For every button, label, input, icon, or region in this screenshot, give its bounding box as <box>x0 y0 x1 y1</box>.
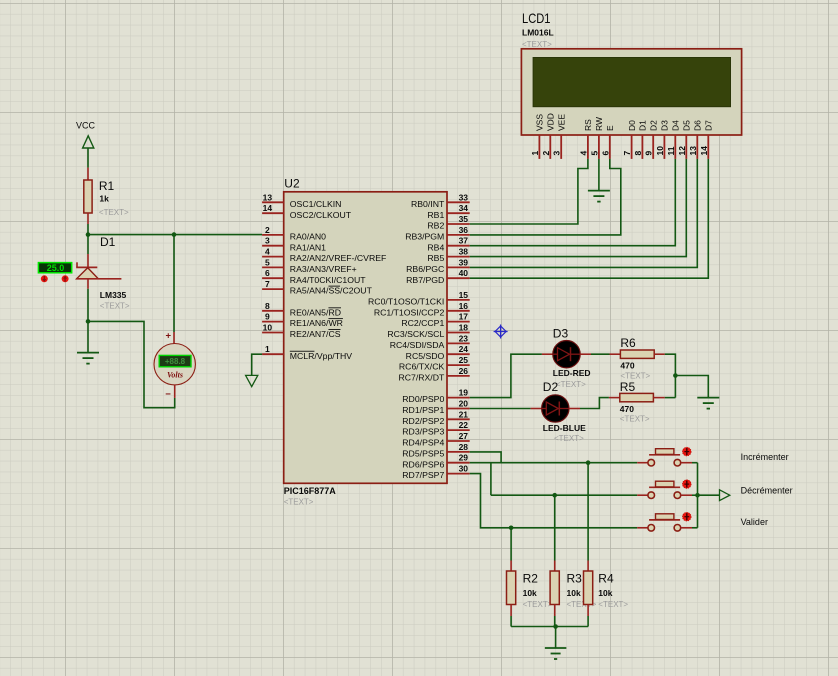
voltmeter plus sign <box>166 331 172 342</box>
svg-text:11: 11 <box>666 146 676 155</box>
text placeholder R1 <box>99 208 129 217</box>
svg-text:D2: D2 <box>648 120 658 131</box>
U2 pin 4 RA2 (left) <box>262 247 386 264</box>
svg-text:36: 36 <box>459 225 469 235</box>
svg-text:<TEXT>: <TEXT> <box>523 600 553 609</box>
svg-text:RS: RS <box>583 119 593 131</box>
svg-text:RB5: RB5 <box>427 253 444 263</box>
svg-text:R2: R2 <box>523 572 539 586</box>
U2 pin 2 RA0 (left) <box>262 225 326 242</box>
svg-text:3: 3 <box>552 151 562 156</box>
microcontroller U2 body <box>284 192 447 484</box>
svg-text:U2: U2 <box>284 176 300 190</box>
svg-text:10k: 10k <box>567 588 581 598</box>
svg-text:D3: D3 <box>660 120 670 131</box>
svg-text:E: E <box>605 125 615 131</box>
U2 pin 13 OSC1 (left) <box>262 192 341 209</box>
U2 pin 20 RD1 (right) <box>402 399 469 416</box>
svg-text:18: 18 <box>459 323 469 333</box>
svg-text:10k: 10k <box>598 588 612 598</box>
svg-text:RB7/PGD: RB7/PGD <box>406 275 444 285</box>
U2 pin 7 RA5 (left) <box>262 279 372 296</box>
resistor R6 <box>610 350 665 358</box>
wire MCLR to terminal <box>252 354 262 375</box>
U2 pin 24 RC5 (right) <box>406 344 470 361</box>
text placeholder R3 <box>567 600 597 609</box>
svg-text:30: 30 <box>459 464 469 474</box>
svg-text:VSS: VSS <box>535 114 545 131</box>
U2 pin 22 RD3 (right) <box>402 420 469 437</box>
svg-text:27: 27 <box>459 431 469 441</box>
LCD1 pin 2 VDD <box>541 113 556 159</box>
svg-text:R5: R5 <box>620 380 636 394</box>
button 1 (Incrementer) <box>637 447 692 466</box>
U2 pin 37 RB4 (right) <box>427 236 469 253</box>
label D3 <box>553 327 569 341</box>
wire drop to button row 2 <box>490 463 492 496</box>
U2 pin 38 RB5 (right) <box>427 247 469 264</box>
svg-text:PIC16F877A: PIC16F877A <box>284 486 337 496</box>
svg-text:RC3/SCK/SCL: RC3/SCK/SCL <box>387 329 444 339</box>
svg-text:9: 9 <box>265 312 270 322</box>
text placeholder D1 <box>100 302 130 311</box>
svg-text:10: 10 <box>655 146 665 156</box>
LCD1 pin 1 VSS <box>530 114 545 159</box>
svg-text:RD5/PSP5: RD5/PSP5 <box>402 449 444 459</box>
node C junction <box>86 319 91 324</box>
value 470 (R6) <box>620 361 634 371</box>
wire RD7 to button row 3 <box>470 474 638 528</box>
button 3 (Valider) <box>637 512 692 531</box>
LCD1 pin 4 RS <box>578 119 593 159</box>
svg-text:LM335: LM335 <box>100 290 127 300</box>
svg-text:17: 17 <box>459 312 469 322</box>
svg-text:7: 7 <box>265 279 270 289</box>
svg-text:LM016L: LM016L <box>522 28 554 38</box>
U2 pin 15 RC0 (right) <box>368 290 470 307</box>
svg-text:RA2/AN2/VREF-/CVREF: RA2/AN2/VREF-/CVREF <box>290 253 387 263</box>
text placeholder R5 <box>620 415 650 424</box>
svg-text:RB1: RB1 <box>427 210 444 220</box>
svg-text:5: 5 <box>265 257 270 267</box>
svg-text:39: 39 <box>459 257 469 267</box>
U2 pin 3 RA1 (left) <box>262 236 326 253</box>
svg-text:4: 4 <box>265 247 270 257</box>
wire to output terminal <box>698 494 720 496</box>
U2 pin 28 RD5 (right) <box>402 442 469 459</box>
wire R6 to node D <box>665 354 676 397</box>
svg-text:RA0/AN0: RA0/AN0 <box>290 232 326 242</box>
label Incrementer <box>741 452 789 462</box>
U2 pin 25 RC6 (right) <box>399 355 470 372</box>
svg-text:24: 24 <box>459 344 469 354</box>
svg-text:RB6/PGC: RB6/PGC <box>406 264 444 274</box>
U2 pin 23 RC4 (right) <box>390 333 470 350</box>
LCD1 pin 3 VEE <box>552 114 567 159</box>
svg-text:RD2/PSP2: RD2/PSP2 <box>402 416 444 426</box>
label R2 <box>523 572 539 586</box>
svg-text:<TEXT>: <TEXT> <box>99 208 129 217</box>
svg-text:RD0/PSP0: RD0/PSP0 <box>402 394 444 404</box>
wire RD6 row to button 1 <box>470 462 638 464</box>
svg-text:<TEXT>: <TEXT> <box>554 434 584 443</box>
actuator terminal up <box>62 275 69 282</box>
wire RD0 to D3 <box>470 354 542 397</box>
svg-text:28: 28 <box>459 442 469 452</box>
svg-text:Valider: Valider <box>741 517 768 527</box>
text placeholder R2 <box>523 600 553 609</box>
svg-text:13: 13 <box>263 192 273 202</box>
svg-text:OSC2/CLKOUT: OSC2/CLKOUT <box>290 210 352 220</box>
svg-text:RC5/SDO: RC5/SDO <box>406 351 445 361</box>
value 10k (R2) <box>523 588 537 598</box>
node D junction <box>673 373 678 378</box>
label R3 <box>567 572 583 586</box>
svg-text:RB4: RB4 <box>427 242 444 252</box>
U2 pin 27 RD4 (right) <box>402 431 469 448</box>
svg-text:<TEXT>: <TEXT> <box>522 40 552 49</box>
svg-text:R6: R6 <box>620 336 636 350</box>
svg-text:8: 8 <box>265 301 270 311</box>
svg-text:RE2/AN7/CS: RE2/AN7/CS <box>290 329 341 339</box>
label R5 <box>620 380 636 394</box>
wire RW to ground <box>598 159 600 191</box>
wire D4 to RB4 <box>470 159 676 246</box>
wire R1 to node A <box>87 224 89 235</box>
ground at LCD RW <box>588 191 610 202</box>
svg-text:<TEXT>: <TEXT> <box>100 302 130 311</box>
svg-text:1: 1 <box>530 151 540 156</box>
U2 pin 36 RB3 (right) <box>405 225 470 242</box>
power terminal VCC symbol <box>83 136 94 148</box>
U2 pin 6 RA4 (left) <box>262 268 366 285</box>
node F junction (R3 pullup) <box>552 493 557 498</box>
label U2 <box>284 176 300 190</box>
LCD1 pin 7 D0 <box>622 120 637 159</box>
svg-text:RE1/AN6/WR: RE1/AN6/WR <box>290 318 343 328</box>
LCD1 pin 12 D5 <box>677 120 692 159</box>
resistor R5 <box>609 393 665 401</box>
svg-text:<TEXT>: <TEXT> <box>556 380 586 389</box>
U2 pin 14 OSC2 (left) <box>262 203 352 220</box>
label Decrementer <box>741 486 793 496</box>
svg-text:MCLR/Vpp/THV: MCLR/Vpp/THV <box>290 351 352 361</box>
svg-text:Décrémenter: Décrémenter <box>741 486 793 496</box>
label R6 <box>620 336 636 350</box>
value LM016L <box>522 28 554 38</box>
led D2 <box>542 395 569 422</box>
text placeholder D2 <box>554 434 584 443</box>
node I junction <box>553 624 558 629</box>
svg-text:29: 29 <box>459 453 469 463</box>
text placeholder R6 <box>620 372 650 381</box>
svg-text:470: 470 <box>620 404 634 414</box>
wire+resistor R2 chain <box>507 528 516 627</box>
svg-text:33: 33 <box>459 192 469 202</box>
svg-text:23: 23 <box>459 333 469 343</box>
U2 pin 35 RB2 (right) <box>427 214 469 231</box>
voltmeter label Volts <box>167 370 183 379</box>
value LM335 <box>100 290 127 300</box>
LCD1 pin 11 D4 <box>666 120 681 159</box>
svg-text:9: 9 <box>644 151 654 156</box>
svg-text:OSC1/CLKIN: OSC1/CLKIN <box>290 199 342 209</box>
value LED-BLUE <box>543 423 586 433</box>
svg-text:LED-RED: LED-RED <box>553 368 591 378</box>
svg-text:VCC: VCC <box>76 121 96 131</box>
node G junction (R2 pullup) <box>509 526 514 531</box>
U2 pin 26 RC7 (right) <box>398 366 469 383</box>
svg-text:<TEXT>: <TEXT> <box>284 498 314 507</box>
label R1 <box>99 179 115 193</box>
text placeholder U2 <box>284 498 314 507</box>
value 10k (R3) <box>567 588 581 598</box>
svg-text:RA3/AN3/VREF+: RA3/AN3/VREF+ <box>290 264 357 274</box>
node B junction <box>172 232 177 237</box>
svg-text:RA5/AN4/SS/C2OUT: RA5/AN4/SS/C2OUT <box>290 286 373 296</box>
ground under D1 <box>77 353 99 364</box>
svg-text:6: 6 <box>265 268 270 278</box>
svg-text:VEE: VEE <box>556 114 566 131</box>
wire node A to RA0 <box>88 234 262 236</box>
U2 pin 39 RB6 (right) <box>406 257 470 274</box>
U2 pin 40 RB7 (right) <box>406 268 470 285</box>
svg-text:5: 5 <box>589 151 599 156</box>
wire R5 to node D <box>665 397 676 399</box>
LCD1 pin 8 D1 <box>633 120 648 159</box>
svg-text:RB3/PGM: RB3/PGM <box>405 232 444 242</box>
svg-text:RD4/PSP4: RD4/PSP4 <box>402 438 444 448</box>
terminal at MCLR <box>246 375 258 386</box>
svg-text:RB0/INT: RB0/INT <box>411 199 445 209</box>
text placeholder D3 <box>556 380 586 389</box>
output terminal <box>720 490 730 501</box>
LCD1 pin 13 D6 <box>688 120 703 159</box>
U2 pin 19 RD0 (right) <box>402 388 469 405</box>
led D3 right pin <box>580 353 591 355</box>
LCD screen <box>533 58 730 107</box>
svg-text:22: 22 <box>459 420 469 430</box>
svg-text:470: 470 <box>620 361 634 371</box>
svg-text:VDD: VDD <box>546 113 556 131</box>
svg-text:R3: R3 <box>567 572 583 586</box>
wire button row 2 <box>491 494 637 496</box>
svg-text:RC2/CCP1: RC2/CCP1 <box>401 318 444 328</box>
svg-text:R4: R4 <box>598 572 614 586</box>
U2 pin 1 (left) <box>262 344 352 361</box>
ground bottom <box>545 648 567 659</box>
wire bottom bus <box>511 626 588 628</box>
svg-text:10k: 10k <box>523 588 537 598</box>
node A junction <box>86 232 91 237</box>
wire E to RB3 <box>470 159 621 235</box>
wire+resistor R4 chain <box>584 463 593 627</box>
svg-text:LED-BLUE: LED-BLUE <box>543 423 586 433</box>
U2 pin 34 RB1 (right) <box>427 203 469 220</box>
label PIC16F877A <box>284 486 337 496</box>
svg-text:Volts: Volts <box>167 370 183 379</box>
svg-text:RC6/TX/CK: RC6/TX/CK <box>399 362 445 372</box>
svg-text:8: 8 <box>633 151 643 156</box>
svg-text:LCD1: LCD1 <box>522 10 551 26</box>
svg-text:Incrémenter: Incrémenter <box>741 452 789 462</box>
wire node C to ground <box>87 321 89 352</box>
power terminal VCC label <box>76 121 96 131</box>
label R4 <box>598 572 614 586</box>
svg-text:RD7/PSP7: RD7/PSP7 <box>402 470 444 480</box>
svg-text:3: 3 <box>265 236 270 246</box>
button 2 (Decrementer) <box>637 480 692 499</box>
svg-text:37: 37 <box>459 236 469 246</box>
svg-text:RA4/T0CKI/C1OUT: RA4/T0CKI/C1OUT <box>290 275 366 285</box>
svg-text:D4: D4 <box>671 120 681 131</box>
wire+resistor R3 chain <box>550 495 559 626</box>
wire D1 to node C <box>87 289 89 322</box>
svg-text:25: 25 <box>459 355 469 365</box>
U2 pin 8 RE0 (left) <box>262 301 341 318</box>
svg-text:RA1/AN1: RA1/AN1 <box>290 242 326 252</box>
value 470 (R5) <box>620 404 634 414</box>
label D2 <box>543 380 559 394</box>
label Valider <box>741 517 768 527</box>
svg-text:R1: R1 <box>99 179 115 193</box>
svg-text:RE0/AN5/RD: RE0/AN5/RD <box>290 307 341 317</box>
svg-text:1k: 1k <box>99 194 109 204</box>
svg-text:+: + <box>166 331 172 342</box>
wire D7 to RB7 <box>470 159 709 278</box>
text placeholder LCD1 <box>522 40 552 49</box>
wire RD1 to D2 <box>470 408 531 410</box>
svg-text:D1: D1 <box>638 120 648 131</box>
U2 pin 17 RC2 (right) <box>401 312 469 329</box>
svg-text:26: 26 <box>459 366 469 376</box>
value LED-RED <box>553 368 591 378</box>
led D3 left pin <box>542 353 553 355</box>
U2 pin 18 RC3 (right) <box>387 323 469 340</box>
U2 pin 5 RA3 (left) <box>262 257 357 274</box>
origin marker <box>494 325 508 339</box>
wire D2 to R5 <box>580 398 609 409</box>
svg-text:1: 1 <box>265 344 270 354</box>
svg-text:15: 15 <box>459 290 469 300</box>
svg-text:40: 40 <box>459 268 469 278</box>
led D2 right pin <box>569 408 580 410</box>
U2 pin 33 RB0 (right) <box>411 192 470 209</box>
wire button 3 to bus <box>692 495 698 528</box>
svg-text:RC4/SDI/SDA: RC4/SDI/SDA <box>390 340 445 350</box>
wire VCC to R1 <box>87 148 89 168</box>
svg-text:D0: D0 <box>627 120 637 131</box>
U2 pin 29 RD6 (right) <box>402 453 469 470</box>
svg-text:14: 14 <box>699 146 709 156</box>
svg-text:21: 21 <box>459 409 469 419</box>
LCD1 pin 5 RW <box>589 117 604 159</box>
svg-text:RC7/RX/DT: RC7/RX/DT <box>398 373 445 383</box>
U2 pin 21 RD2 (right) <box>402 409 469 426</box>
node H junction <box>695 493 700 498</box>
temperature display 25.0 <box>38 263 71 273</box>
svg-text:−: − <box>165 389 171 400</box>
svg-text:13: 13 <box>688 146 698 156</box>
U2 pin 30 RD7 (right) <box>402 464 469 481</box>
svg-text:12: 12 <box>677 146 687 156</box>
text placeholder R4 <box>598 600 628 609</box>
svg-text:D5: D5 <box>682 120 692 131</box>
U2 pin 10 RE2 (left) <box>262 323 341 340</box>
svg-text:<TEXT>: <TEXT> <box>598 600 628 609</box>
wire D5 to RB5 <box>470 159 687 257</box>
wire node D to ground <box>675 376 708 398</box>
led D3 <box>553 341 580 368</box>
svg-text:D2: D2 <box>543 380 559 394</box>
LCD1 pin 9 D2 <box>644 120 659 159</box>
svg-text:<TEXT>: <TEXT> <box>620 415 650 424</box>
LCD1 pin 10 D3 <box>655 120 670 159</box>
svg-text:38: 38 <box>459 247 469 257</box>
svg-text:RC0/T1OSO/T1CKI: RC0/T1OSO/T1CKI <box>368 297 444 307</box>
svg-text:6: 6 <box>600 151 610 156</box>
svg-text:+88.8: +88.8 <box>165 357 186 366</box>
ground near R5 <box>697 398 719 409</box>
wire RS to RB2 <box>470 159 588 224</box>
svg-text:D1: D1 <box>100 235 116 249</box>
svg-text:14: 14 <box>263 203 273 213</box>
LCD1 pin 6 E <box>600 125 615 159</box>
wire button 2 to bus <box>692 494 698 496</box>
wire button 1 to bus <box>692 463 698 496</box>
svg-text:2: 2 <box>265 225 270 235</box>
LCD1 pin 14 D7 <box>699 120 714 159</box>
value 1k <box>99 194 109 204</box>
svg-text:RW: RW <box>594 117 604 131</box>
voltmeter body <box>154 344 195 385</box>
value 10k (R4) <box>598 588 612 598</box>
svg-text:D6: D6 <box>693 120 703 131</box>
svg-text:RD3/PSP3: RD3/PSP3 <box>402 427 444 437</box>
svg-text:RB2: RB2 <box>427 221 444 231</box>
voltmeter minus sign <box>165 389 171 400</box>
svg-text:16: 16 <box>459 301 469 311</box>
svg-text:7: 7 <box>622 151 632 156</box>
resistor R1 <box>84 168 92 224</box>
svg-text:D3: D3 <box>553 327 569 341</box>
svg-text:4: 4 <box>578 151 588 156</box>
wire D3 to R6 <box>591 353 610 355</box>
svg-text:RC1/T1OSI/CCP2: RC1/T1OSI/CCP2 <box>374 307 445 317</box>
svg-text:RD1/PSP1: RD1/PSP1 <box>402 405 444 415</box>
wire bus to ground <box>555 627 557 649</box>
U2 pin 9 RE1 (left) <box>262 312 343 329</box>
voltmeter top pin <box>173 332 175 344</box>
LCD LCD1 body <box>521 49 741 135</box>
svg-text:20: 20 <box>459 399 469 409</box>
svg-text:35: 35 <box>459 214 469 224</box>
svg-text:D7: D7 <box>704 120 714 131</box>
svg-text:19: 19 <box>459 388 469 398</box>
wire RD5 jog <box>470 452 501 463</box>
voltmeter display <box>159 355 191 366</box>
svg-text:2: 2 <box>541 151 551 156</box>
wire D6 to RB6 <box>470 159 698 268</box>
wire node C to voltmeter - <box>88 321 175 407</box>
led D2 left pin <box>531 408 542 410</box>
svg-text:10: 10 <box>263 323 273 333</box>
voltmeter bottom pin <box>174 385 176 398</box>
label D1 <box>100 235 116 249</box>
label LCD1 <box>522 10 551 26</box>
svg-text:34: 34 <box>459 203 469 213</box>
svg-text:25.0: 25.0 <box>47 263 65 273</box>
